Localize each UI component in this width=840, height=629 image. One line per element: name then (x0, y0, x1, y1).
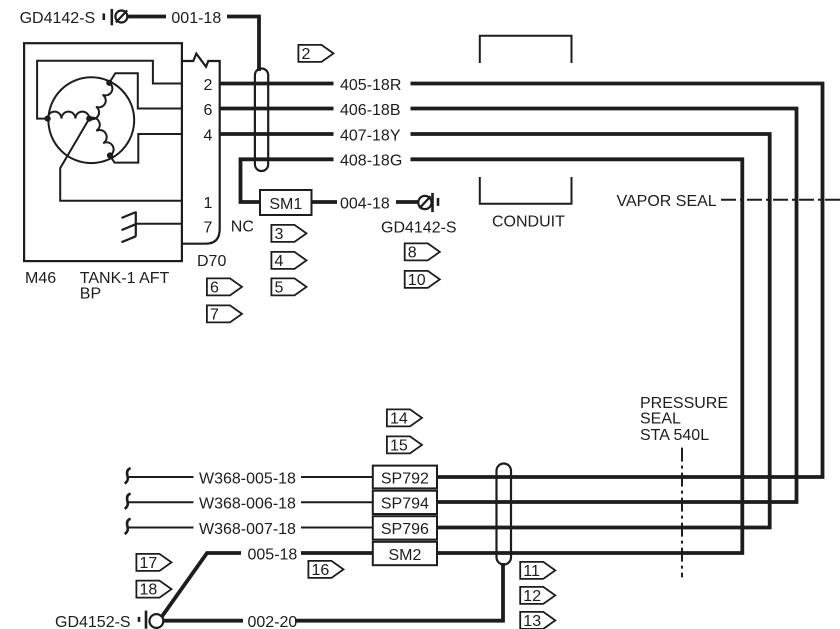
svg-text:13: 13 (523, 613, 541, 629)
connector D70 (182, 54, 220, 244)
winding upper-right (89, 83, 112, 119)
svg-text:SP796: SP796 (381, 521, 429, 538)
svg-text:STA 540L: STA 540L (640, 427, 709, 444)
svg-text:005-18: 005-18 (248, 546, 298, 563)
svg-text:6: 6 (204, 102, 213, 119)
shield terminator GD4142-S mid (418, 193, 438, 212)
node center (86, 116, 92, 122)
flag 5 (271, 278, 306, 296)
flag 3 (271, 225, 306, 243)
flag 11 (520, 562, 555, 580)
wire wiper to pin 1 (60, 119, 182, 201)
wire 004-18 (312, 200, 419, 204)
svg-text:2: 2 (302, 46, 311, 63)
flag 13 (520, 612, 555, 629)
wire elbow to SM1 (241, 159, 261, 202)
svg-text:7: 7 (204, 220, 213, 237)
svg-text:002-20: 002-20 (248, 614, 298, 629)
svg-text:PRESSURE: PRESSURE (640, 395, 728, 412)
ground stud GD4152-S (139, 611, 163, 629)
svg-text:1: 1 (204, 195, 213, 212)
chassis ground (122, 212, 136, 243)
svg-text:7: 7 (210, 307, 219, 324)
wire 002-20 left (164, 619, 243, 623)
svg-text:14: 14 (390, 411, 408, 428)
flag 15 (387, 436, 422, 454)
svg-text:3: 3 (275, 226, 284, 243)
svg-text:15: 15 (390, 438, 408, 455)
svg-text:W368-005-18: W368-005-18 (199, 470, 296, 487)
flag 2 (298, 45, 333, 63)
splice box SP794 (373, 491, 437, 514)
splice box SM2 (373, 542, 437, 565)
svg-text:405-18R: 405-18R (340, 77, 401, 94)
flag 14 (387, 409, 422, 427)
svg-text:16: 16 (312, 562, 330, 579)
svg-text:004-18: 004-18 (340, 196, 390, 213)
svg-text:8: 8 (408, 245, 417, 262)
svg-text:4: 4 (275, 253, 284, 270)
wire 408-18G (239, 159, 743, 553)
svg-text:17: 17 (140, 555, 158, 572)
svg-text:M46: M46 (25, 270, 56, 287)
svg-text:5: 5 (275, 280, 284, 297)
wire upper-right node to pin 6 (109, 73, 182, 108)
svg-text:001-18: 001-18 (171, 10, 221, 27)
wire W368-005-18 (128, 476, 373, 478)
breakoff hook wire W368-007-18 (125, 519, 131, 534)
wire W368-006-18 (128, 501, 373, 503)
splice SM1 (260, 190, 312, 215)
svg-text:W368-007-18: W368-007-18 (199, 521, 296, 538)
winding left (48, 112, 90, 119)
shield oval bottom (497, 464, 512, 565)
flag 7 (207, 305, 242, 323)
svg-text:10: 10 (408, 272, 426, 289)
conduit bracket bottom (480, 177, 572, 204)
flag 18 (136, 581, 171, 599)
pressure seal dash-dot line (681, 448, 683, 578)
svg-text:407-18Y: 407-18Y (340, 127, 401, 144)
wire lower-right node to pin 4 (110, 134, 182, 163)
wire 405-18R (220, 84, 823, 478)
wire left node to pin 2 (37, 61, 182, 119)
svg-text:406-18B: 406-18B (340, 102, 401, 119)
svg-text:W368-006-18: W368-006-18 (199, 496, 296, 513)
svg-text:2: 2 (204, 77, 213, 94)
svg-text:GD4142-S: GD4142-S (381, 220, 457, 237)
svg-text:NC: NC (231, 218, 254, 235)
flag 17 (136, 554, 171, 572)
node upper-right (106, 80, 112, 86)
svg-text:6: 6 (210, 280, 219, 297)
breakoff hook wire W368-006-18 (125, 494, 131, 509)
wire 407-18Y (220, 134, 770, 528)
wire shield drain to 002-20 (295, 563, 503, 621)
flag 10 (405, 271, 440, 289)
svg-text:18: 18 (140, 582, 158, 599)
svg-text:SM1: SM1 (269, 196, 302, 213)
wire 406-18B (220, 109, 797, 503)
svg-text:SM2: SM2 (388, 547, 421, 564)
flag 6 (207, 278, 242, 296)
wire 001-18 (128, 17, 259, 72)
svg-text:408-18G: 408-18G (340, 153, 402, 170)
svg-text:GD4142-S: GD4142-S (20, 10, 96, 27)
unit box M46 (24, 43, 182, 261)
svg-text:12: 12 (523, 588, 541, 605)
flag 12 (520, 587, 555, 605)
node left (45, 116, 51, 122)
flag 8 (405, 243, 440, 261)
node lower-right (107, 152, 113, 158)
svg-text:SP792: SP792 (381, 470, 429, 487)
svg-text:D70: D70 (197, 253, 226, 270)
wire ground to pin 7 (136, 223, 182, 225)
svg-text:SEAL: SEAL (640, 410, 681, 427)
vapor seal dash-dot line (721, 199, 840, 201)
svg-text:4: 4 (204, 127, 213, 144)
shield oval top (255, 69, 268, 172)
wire 005-18 (162, 553, 373, 616)
flag 16 (308, 561, 343, 579)
splice box SP792 (373, 466, 437, 489)
wire W368-007-18 (128, 527, 373, 529)
svg-text:VAPOR SEAL: VAPOR SEAL (617, 193, 717, 210)
svg-text:CONDUIT: CONDUIT (492, 214, 565, 231)
svg-text:11: 11 (523, 563, 540, 580)
conduit bracket top (480, 36, 572, 63)
winding lower-right (89, 118, 113, 156)
svg-text:BP: BP (80, 285, 101, 302)
splice box SP796 (373, 516, 437, 539)
motor stator circle (48, 77, 134, 163)
svg-text:GD4152-S: GD4152-S (55, 614, 131, 629)
breakoff hook wire W368-005-18 (125, 468, 131, 483)
flag 4 (271, 252, 306, 270)
shield terminator GD4142-S top-left (104, 9, 128, 25)
svg-text:SP794: SP794 (381, 496, 429, 513)
